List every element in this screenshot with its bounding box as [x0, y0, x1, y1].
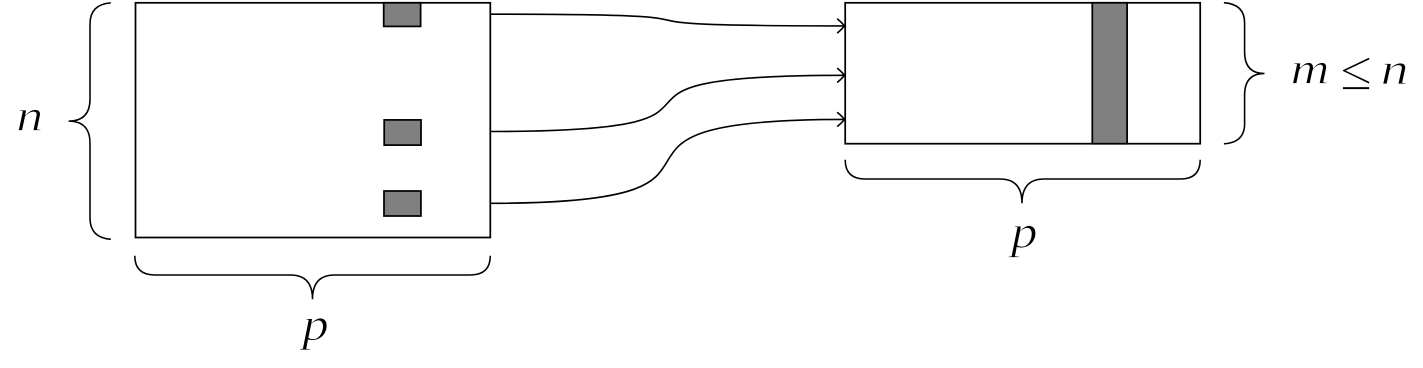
curved arrow 3 (bottom row mapping)	[490, 119, 844, 203]
curved arrow 1 (top row mapping)	[490, 14, 844, 26]
selected column band (gray)	[1092, 3, 1127, 144]
svg-text:≤: ≤	[1340, 40, 1372, 103]
bottom brace under right matrix	[845, 160, 1200, 204]
left matrix rectangle	[136, 3, 491, 238]
arrowhead 2	[838, 69, 845, 83]
left vertical brace for n rows	[69, 3, 111, 239]
curved arrow 2 (middle row mapping)	[490, 75, 844, 131]
arrowhead 3	[838, 113, 845, 127]
selected row block 2 (middle)	[384, 120, 421, 145]
bottom brace under left matrix	[135, 256, 491, 299]
svg-text:n: n	[16, 92, 43, 141]
selected row block 1 (top)	[384, 3, 421, 27]
svg-text:p: p	[299, 300, 329, 351]
selected row block 3 (bottom)	[384, 191, 421, 216]
right vertical brace for m rows	[1224, 3, 1265, 144]
svg-text:p: p	[1008, 207, 1038, 258]
svg-text:m: m	[1291, 44, 1330, 93]
right matrix rectangle	[845, 3, 1200, 144]
svg-text:n: n	[1381, 45, 1409, 94]
arrowhead 1	[838, 19, 845, 33]
